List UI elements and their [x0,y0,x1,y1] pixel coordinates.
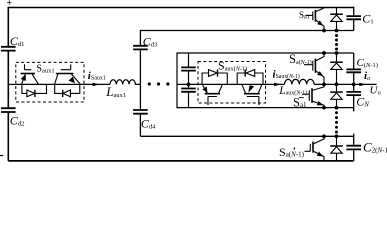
node mid caps junction [187,83,191,87]
svg-text:C2(N-1): C2(N-1) [363,140,387,155]
diode D_a(N-1) [330,53,343,84]
wire Cd3/Cd4 rail [139,30,141,136]
svg-text:iSaux1: iSaux1 [88,70,106,82]
capacitor C(N-1) [353,53,355,84]
capacitor mid lower [181,89,196,92]
svg-text:Laux1: Laux1 [105,84,126,99]
wire stub to aux box 1 [8,83,16,85]
node dots bus2 [322,29,326,33]
wire bus5 (solid box bottom edge) [177,107,354,109]
inductor Laux1 [110,80,140,85]
svg-text:Sa(N-1): Sa(N-1) [289,52,312,66]
dashed box Saux1 [16,62,84,102]
diode D_a(N'-1) [330,136,343,161]
capacitor CN [353,84,355,111]
node dots bus5 [322,106,326,110]
transistor Sa(N'-1) [305,136,325,161]
capacitor C2(N-1) [353,134,355,161]
transistor Q2b (box2 right IGBT) [242,84,262,105]
svg-text:C(N-1): C(N-1) [357,57,378,69]
capacitor mid upper [188,53,190,108]
transistor Q1b (box1 right IGBT) [55,64,81,84]
transistor Sbar_a1 [302,84,324,107]
svg-text:Cd3: Cd3 [143,34,158,48]
svg-text:Cd4: Cd4 [141,116,156,130]
inductor Laux(N-1) [285,79,315,84]
svg-text:Saux1: Saux1 [36,64,54,75]
capacitor Cd3 [133,46,148,50]
transistor Sa(N-1) [304,53,324,84]
wire top bus [8,7,353,9]
svg-text:io: io [364,70,371,82]
capacitor Cd2 [1,108,16,112]
wire bus6 [140,135,353,137]
wire ellipsis dots (left) [148,82,170,85]
arrow iSaux(N-1) [274,83,281,87]
wire vertical ellipsis upper [335,34,338,51]
capacitor C1 [353,7,355,31]
arrow io output [359,83,366,87]
diode D1b (box1 right diode) [55,84,80,97]
wire bus3 (solid box top edge) [177,52,354,54]
diode D2b (box2 right diode) [237,69,263,84]
wire bus2 (second bus) [140,30,353,32]
node dots bus3 [322,51,326,55]
wire main aux line through box1 [16,83,110,85]
svg-text:Cd2: Cd2 [10,114,25,128]
dashed box Saux(N-1) [198,62,266,104]
diode D2a (box2 left diode) [202,69,227,84]
capacitor Cd4 [133,110,148,114]
node dots bus6 [322,134,326,138]
svg-text:iSaux(N-1): iSaux(N-1) [273,68,300,80]
wire vertical ellipsis lower [335,111,338,133]
node - (negative terminal mark) [0,155,3,157]
svg-text:Sa1: Sa1 [299,10,310,21]
arrow iSaux1 [93,83,100,87]
capacitor Cd1 [1,47,16,51]
svg-text:Uo: Uo [370,85,381,97]
svg-text:CN: CN [356,95,369,109]
svg-text:Saux(N-1): Saux(N-1) [218,59,247,73]
node + (positive terminal mark) [7,0,11,4]
transistor Sa1 [306,8,325,31]
node dots output bus [322,83,326,87]
wire mid aux line through box2 [177,83,285,85]
svg-text:Sa(N-1): Sa(N-1) [279,145,305,159]
transistor Q1a (box1 left IGBT) [21,64,39,84]
wire left rail [7,7,9,161]
svg-text:C1: C1 [362,11,373,25]
svg-text:Cd1: Cd1 [10,34,25,48]
diode D_bar_a1 [330,84,343,107]
wire output bus [314,83,376,85]
diode D_a1 [330,8,343,31]
wire solid box left edge [176,52,178,108]
transistor Q2a (box2 left IGBT) [202,84,222,105]
wire bottom bus [8,160,353,162]
diode D1a (box1 left diode) [22,84,47,97]
